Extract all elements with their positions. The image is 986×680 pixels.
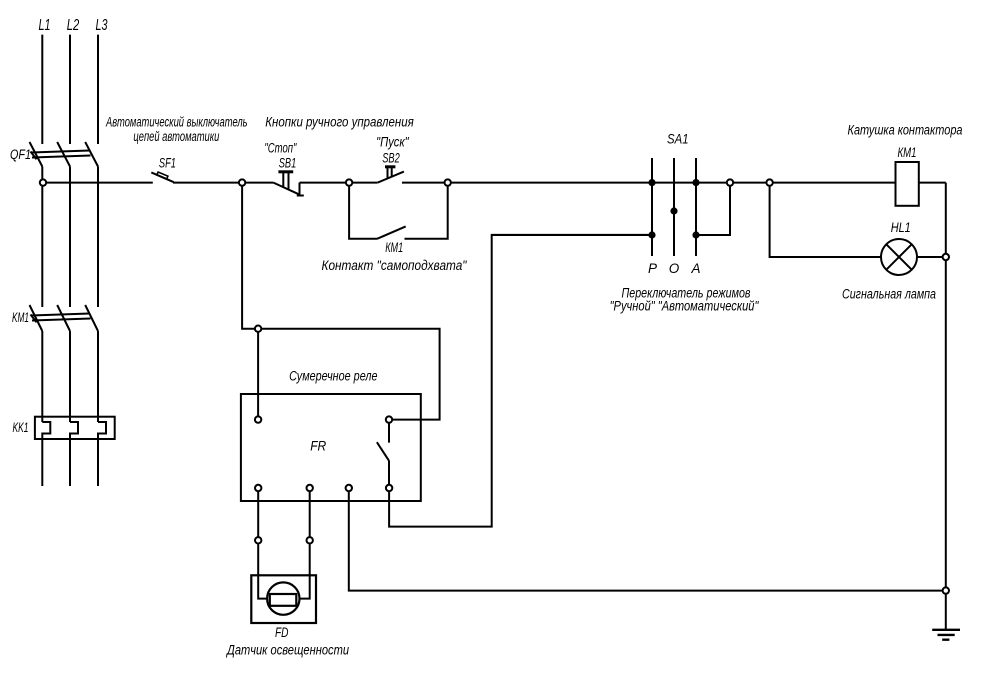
svg-text:SA1: SA1 [667,132,689,147]
svg-text:KK1: KK1 [13,420,29,435]
svg-text:Контакт "самоподхвата": Контакт "самоподхвата" [322,258,468,273]
svg-text:"Пуск": "Пуск" [376,135,409,150]
svg-text:Датчик освещенности: Датчик освещенности [225,643,349,658]
svg-text:А: А [690,261,700,276]
svg-text:Сигнальная лампа: Сигнальная лампа [842,287,936,302]
svg-text:цепей автоматики: цепей автоматики [133,129,219,144]
svg-text:Сумеречное реле: Сумеречное реле [289,369,377,384]
svg-text:КМ1: КМ1 [385,240,403,255]
svg-text:KM1: KM1 [12,310,29,325]
svg-text:SF1: SF1 [159,156,176,171]
svg-text:"Стоп": "Стоп" [264,140,297,155]
svg-text:SB2: SB2 [382,151,400,166]
svg-text:FR: FR [310,439,326,454]
svg-text:Кнопки ручного управления: Кнопки ручного управления [265,115,414,130]
svg-text:FD: FD [275,625,289,640]
svg-text:L1: L1 [39,17,51,34]
svg-text:КМ1: КМ1 [898,145,917,160]
svg-text:"Ручной" "Автоматический": "Ручной" "Автоматический" [610,299,760,314]
svg-text:L3: L3 [96,17,108,34]
svg-text:Катушка контактора: Катушка контактора [848,123,963,138]
svg-text:Р: Р [648,261,657,276]
svg-text:L2: L2 [67,17,80,34]
svg-text:Автоматический выключатель: Автоматический выключатель [105,115,247,130]
svg-text:О: О [669,261,680,276]
svg-text:SB1: SB1 [279,156,297,171]
svg-text:QF1: QF1 [10,147,31,162]
svg-text:HL1: HL1 [891,220,911,235]
